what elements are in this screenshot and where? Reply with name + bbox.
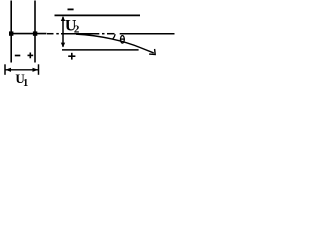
svg-text:U1: U1 — [15, 71, 28, 89]
minus above top plate — [68, 8, 74, 10]
beam trajectory curve — [76, 34, 154, 53]
junction dot on P1 — [9, 31, 13, 35]
U2 arrowhead up — [61, 16, 65, 21]
angle arc — [113, 34, 116, 39]
U2 double-headed arrow (shaft) — [62, 17, 64, 47]
dimension extension tick left — [4, 64, 6, 75]
beam arrowhead — [149, 49, 155, 55]
label theta — [120, 36, 125, 44]
wire (horizontal connection at axis level) — [10, 33, 46, 35]
bottom plate line (phasor diagram lower level) — [62, 49, 139, 51]
dimension line U1 with outward arrowheads — [5, 68, 38, 72]
svg-text:U2: U2 — [65, 18, 80, 36]
dimension extension tick right — [38, 64, 40, 75]
conductor plate P2 (right vertical line) — [34, 1, 36, 63]
dash-dot axis line — [47, 33, 175, 35]
U2 arrowhead down — [61, 43, 65, 48]
conductor plate P1 (left vertical line) — [10, 1, 12, 63]
polarity minus (circuit, left) — [15, 55, 20, 57]
plus below bottom plate — [68, 53, 75, 60]
top plate line (phasor diagram upper level) — [55, 14, 141, 16]
polarity plus (circuit, right) — [28, 53, 34, 59]
junction dot on P2 — [33, 31, 37, 35]
